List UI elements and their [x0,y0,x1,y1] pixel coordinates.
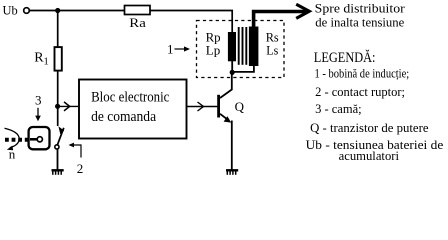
svg-text:Q: Q [235,99,245,114]
svg-text:Ls: Ls [266,43,278,58]
cam inner circle [37,137,42,142]
svg-text:Lp: Lp [206,43,221,58]
wire left branch upper [57,11,59,48]
svg-text:2: 2 [77,161,84,176]
resistor Ra [125,6,151,15]
dashed box coil 1 [197,21,285,78]
svg-text:de inalta tensiune: de inalta tensiune [315,15,404,30]
terminal Ub [24,8,30,14]
junction node B [55,104,60,109]
svg-text:Bloc electronic: Bloc electronic [91,89,170,105]
svg-text:1 - bobină de inducție;: 1 - bobină de inducție; [315,65,410,80]
svg-text:3: 3 [35,92,42,107]
dashed shaft [5,138,28,142]
svg-text:de comanda: de comanda [91,109,156,125]
svg-text:Ra: Ra [129,15,146,30]
resistor R1 [55,47,62,71]
wire secondary bottom to junction [233,65,254,72]
chevron arrow into block [64,102,70,111]
cam inner shaft [30,138,37,141]
junction node C (coil bottom) [230,70,235,75]
transistor Q [217,73,232,170]
svg-text:Ub: Ub [3,2,18,17]
svg-text:2 - contact ruptor;: 2 - contact ruptor; [315,84,405,99]
ground under Q [226,170,238,175]
block U1 Bloc electronic de comanda [79,80,187,139]
wire switch to ground [57,149,59,170]
arrow from 3 to cam [37,108,39,117]
core [238,27,240,65]
svg-text:Q - tranzistor de putere: Q - tranzistor de putere [310,120,429,135]
cam box 3 [29,127,50,149]
wire block to transistor base [187,106,219,108]
thick HT wire with arrow [254,12,307,28]
primary winding Lp [228,32,236,61]
svg-text:1: 1 [167,41,174,56]
chevron arrow to base [198,102,204,111]
svg-text:n: n [9,146,16,161]
wire into control block [58,105,78,107]
secondary winding Ls [249,27,259,67]
label 2 with arrow [70,145,81,158]
wire primary bottom to junction [231,61,233,75]
svg-text:LEGENDĂ:: LEGENDĂ: [314,49,376,66]
wire top rail left [30,10,125,12]
svg-text:Spre distribuitor: Spre distribuitor [315,1,406,16]
junction top [55,8,60,13]
wire top rail right [150,11,232,34]
svg-text:3 - camă;: 3 - camă; [315,101,362,116]
ground left [52,170,64,175]
svg-text:acumulatori: acumulatori [339,148,400,163]
switch contact 2 (ruptor) [57,128,63,145]
rotation arc n [5,128,20,148]
wire left branch lower [57,70,59,126]
